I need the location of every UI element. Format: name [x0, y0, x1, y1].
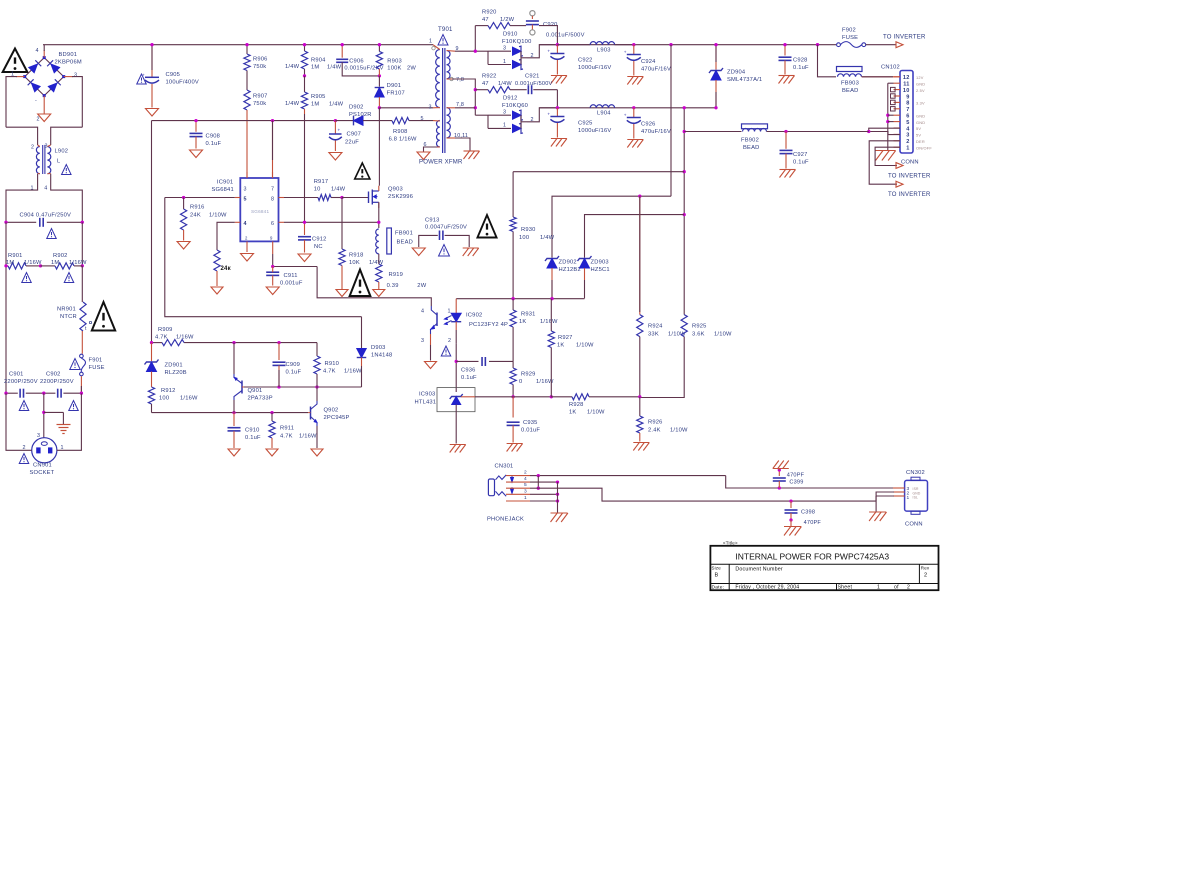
svg-text:11: 11 — [903, 82, 909, 88]
svg-text:R910: R910 — [325, 361, 340, 367]
capacitor C935 — [507, 397, 541, 443]
wire Vcc rail down — [151, 121, 153, 343]
pin stub CN301 pin3 — [506, 488, 530, 494]
svg-text:8: 8 — [906, 101, 909, 107]
wire D903 branch — [361, 317, 363, 349]
junction — [277, 385, 318, 388]
junction — [632, 106, 635, 109]
svg-text:1/16W: 1/16W — [299, 434, 317, 440]
svg-text:FUSE: FUSE — [89, 365, 105, 371]
earth T901 secondary — [464, 151, 480, 159]
svg-text:R905: R905 — [311, 94, 326, 100]
svg-text:<Title>: <Title> — [723, 541, 738, 546]
label R918 — [349, 253, 384, 267]
svg-text:5V: 5V — [916, 133, 921, 138]
svg-text:1/10W: 1/10W — [670, 428, 688, 434]
svg-text:PS102R: PS102R — [349, 112, 372, 118]
svg-text:1000uF/16V: 1000uF/16V — [578, 128, 611, 134]
label to inverter mid — [888, 174, 931, 180]
svg-text:DER: DER — [916, 139, 925, 144]
svg-text:1/10W: 1/10W — [587, 410, 605, 416]
svg-text:SG6841: SG6841 — [212, 187, 234, 193]
wire pin1 — [530, 500, 558, 502]
svg-text:HZ12B2: HZ12B2 — [559, 267, 581, 273]
svg-text:2SK2996: 2SK2996 — [388, 194, 413, 200]
svg-text:R912: R912 — [161, 388, 176, 394]
wire Q903 source — [378, 202, 380, 228]
bridge rectifier BD901 — [11, 48, 82, 123]
svg-text:1: 1 — [906, 146, 909, 152]
svg-text:R929: R929 — [521, 372, 536, 378]
wire left rail down — [5, 222, 7, 393]
label to inverter bottom — [888, 192, 931, 198]
svg-text:R931: R931 — [521, 312, 536, 318]
svg-text:1N4148: 1N4148 — [371, 353, 392, 359]
wire pin5 stub — [888, 121, 894, 123]
svg-text:R917: R917 — [314, 179, 329, 185]
svg-text:+: + — [624, 50, 627, 55]
earth C922 — [551, 76, 567, 84]
ferrite bead FB901 — [376, 228, 413, 254]
wire switch node — [379, 108, 433, 186]
warning symbol C913 — [439, 245, 450, 257]
wire D912 out — [527, 108, 557, 122]
wire to earth — [44, 412, 64, 424]
svg-text:2W: 2W — [417, 283, 426, 289]
wire F901 to cap row — [80, 376, 82, 393]
resistor R926 — [637, 397, 688, 442]
svg-text:NTCR: NTCR — [60, 314, 77, 320]
pin stub CN301 pin5 — [506, 482, 530, 488]
svg-text:8: 8 — [271, 196, 274, 202]
pin stub IC901 p5 — [235, 197, 241, 199]
wire pin4 — [530, 481, 558, 483]
pin stub IC901 p3 — [246, 172, 248, 178]
dual diode D912 — [475, 96, 533, 134]
junction — [378, 43, 381, 46]
svg-text:1/10W: 1/10W — [576, 343, 594, 349]
junction — [378, 106, 381, 109]
svg-text:24K: 24K — [190, 213, 201, 219]
svg-text:C901: C901 — [9, 372, 24, 378]
wire bridge + to rail — [43, 45, 45, 58]
svg-text:470uF/16V: 470uF/16V — [641, 67, 671, 73]
svg-text:47: 47 — [482, 81, 489, 87]
junction — [714, 43, 717, 109]
no-connect pin9 — [891, 94, 896, 98]
svg-text:0.01uF: 0.01uF — [521, 428, 540, 434]
wire D910 out — [527, 45, 557, 58]
svg-text:9: 9 — [270, 236, 273, 241]
wire CN302 p2 gnd — [876, 492, 894, 512]
svg-text:R911: R911 — [280, 426, 294, 432]
junction — [789, 499, 792, 502]
capacitor C911 — [266, 267, 303, 287]
junction — [271, 119, 337, 122]
svg-text:HZ5C1: HZ5C1 — [591, 267, 610, 273]
wire C902 center down — [43, 393, 45, 438]
svg-text:C925: C925 — [578, 121, 593, 127]
svg-text:R919: R919 — [389, 272, 404, 278]
wire 12V vertical — [670, 45, 672, 197]
wire R930 row — [513, 171, 684, 173]
svg-text:2: 2 — [245, 236, 248, 241]
junction — [271, 265, 274, 268]
svg-text:ZD902: ZD902 — [559, 260, 577, 266]
svg-text:7,8: 7,8 — [456, 102, 464, 108]
svg-text:1M: 1M — [311, 65, 319, 71]
resistor R903 — [376, 45, 416, 76]
svg-text:TO INVERTER: TO INVERTER — [888, 192, 931, 198]
junction — [816, 43, 819, 46]
thermistor NR901 — [57, 266, 92, 354]
svg-text:C399: C399 — [789, 480, 803, 486]
wire ref row — [513, 396, 551, 398]
svg-text:1/4W: 1/4W — [285, 101, 300, 107]
no-connect pin7 — [891, 107, 896, 111]
ground R911 — [266, 449, 278, 456]
svg-text:1/4W: 1/4W — [331, 187, 346, 193]
svg-text:TO INVERTER: TO INVERTER — [888, 174, 931, 180]
svg-text:2200P/250V: 2200P/250V — [4, 379, 38, 385]
resistor R904 — [301, 45, 341, 76]
svg-text:1/16W: 1/16W — [176, 335, 194, 341]
resistor R907 — [244, 90, 300, 178]
svg-text:CONN: CONN — [901, 160, 919, 166]
pin stub IC901 p7 — [272, 172, 274, 178]
junction — [669, 43, 672, 46]
wire jack gnd — [557, 482, 559, 512]
svg-text:0.1uF: 0.1uF — [461, 375, 477, 381]
svg-text:1K: 1K — [557, 343, 564, 349]
svg-text:F10KQ100: F10KQ100 — [502, 39, 532, 45]
svg-text:2: 2 — [906, 139, 909, 145]
junction — [783, 43, 786, 46]
svg-text:C398: C398 — [801, 510, 815, 516]
ground C908 — [190, 150, 203, 158]
svg-text:7: 7 — [906, 107, 909, 113]
fuse F901 — [80, 354, 105, 376]
svg-text:FB901: FB901 — [395, 231, 413, 237]
svg-text:R920: R920 — [482, 10, 497, 16]
svg-text:L904: L904 — [597, 111, 611, 117]
svg-text:3: 3 — [244, 187, 247, 193]
svg-text:C902: C902 — [46, 372, 61, 378]
junction — [474, 50, 477, 53]
earth C927 — [780, 170, 796, 178]
svg-text:3: 3 — [74, 73, 77, 79]
svg-text:C922: C922 — [578, 58, 593, 64]
svg-text:1/10W: 1/10W — [209, 213, 227, 219]
svg-text:1/4W: 1/4W — [540, 235, 555, 241]
warning symbol near L902 — [62, 165, 72, 175]
junction — [340, 196, 343, 199]
svg-text:10: 10 — [314, 187, 321, 193]
svg-text:IC903: IC903 — [419, 392, 435, 398]
svg-text:2200P/250V: 2200P/250V — [40, 379, 74, 385]
no-connect pin8 — [891, 100, 896, 104]
svg-text:1K: 1K — [519, 319, 526, 325]
ground C907 — [329, 153, 342, 161]
earth CN302 p2 — [869, 512, 886, 521]
capacitor C399 — [773, 471, 805, 489]
resistor R911 — [269, 413, 317, 448]
label R928 — [569, 402, 605, 416]
resistor R918 — [339, 198, 345, 290]
svg-text:3: 3 — [429, 105, 432, 111]
transistor Q902 2PC945P — [308, 387, 350, 448]
wire pin2 long — [530, 475, 726, 477]
junction — [42, 411, 45, 414]
ground C910 — [228, 449, 240, 456]
wire right rail down — [81, 222, 83, 266]
svg-text:3: 3 — [503, 110, 506, 116]
svg-text:SG6841: SG6841 — [251, 209, 269, 214]
svg-text:ON/OFF: ON/OFF — [916, 145, 932, 150]
connector CN302 — [905, 470, 928, 528]
warning symbol under R902 — [64, 273, 74, 283]
capacitor C905 — [142, 45, 199, 108]
warning symbol near F901 — [70, 359, 80, 370]
warning symbol R919 — [350, 270, 371, 297]
wire pin8 row — [284, 197, 318, 199]
ferrite bead FB903 — [837, 67, 901, 95]
earth CN301 — [551, 513, 568, 522]
svg-text:4.7K: 4.7K — [280, 434, 293, 440]
svg-text:ISR: ISR — [913, 487, 920, 491]
svg-text:HTL431: HTL431 — [415, 400, 437, 406]
wire pin9 down — [273, 254, 317, 267]
transistor Q903 2SK2996 — [369, 186, 414, 208]
svg-text:1: 1 — [503, 123, 506, 129]
ground opto — [425, 362, 437, 369]
svg-text:C913: C913 — [425, 218, 440, 224]
diode D901 — [375, 76, 405, 108]
svg-text:BEAD: BEAD — [743, 145, 760, 151]
svg-text:GND: GND — [916, 120, 925, 125]
svg-text:ZD901: ZD901 — [165, 363, 183, 369]
pin stub CN102 pin5 — [894, 121, 901, 123]
svg-text:3: 3 — [503, 46, 506, 52]
svg-text:0.1uF: 0.1uF — [793, 160, 809, 166]
wire pin2-pin5 tie — [537, 476, 539, 489]
wire base row — [244, 386, 362, 388]
svg-text:R928: R928 — [569, 402, 584, 408]
svg-text:PHONEJACK: PHONEJACK — [487, 517, 524, 523]
svg-text:C906: C906 — [349, 58, 364, 64]
svg-text:R927: R927 — [558, 335, 573, 341]
svg-text:R922: R922 — [482, 74, 497, 80]
resistor R912 — [148, 387, 198, 413]
wire gate — [342, 197, 369, 199]
svg-text:D901: D901 — [387, 83, 402, 89]
resistor R916 — [181, 198, 228, 241]
svg-text:4: 4 — [244, 221, 247, 227]
capacitor C922 — [547, 45, 611, 75]
warning symbol opto — [441, 346, 451, 356]
svg-text:C912: C912 — [312, 237, 327, 243]
pin stub IC901 p9 — [272, 241, 274, 254]
svg-text:2: 2 — [448, 338, 451, 344]
wire pin5 left rail — [165, 198, 362, 317]
wire tl431 out — [475, 396, 513, 398]
wire bridge right — [64, 77, 83, 128]
svg-text:1: 1 — [503, 59, 506, 65]
svg-text:2: 2 — [524, 470, 527, 476]
resistor R910 — [314, 343, 362, 387]
IC903 HTL431 — [415, 388, 476, 412]
junction — [150, 341, 281, 344]
pin stub CN301 pin4 — [506, 476, 530, 482]
connector CN102 box — [881, 65, 932, 166]
wire pin9 net — [455, 26, 488, 52]
svg-text:Rev: Rev — [921, 566, 930, 571]
svg-text:D902: D902 — [349, 105, 364, 111]
svg-text:0.1uF: 0.1uF — [206, 141, 222, 147]
svg-text:C907: C907 — [347, 132, 362, 138]
svg-text:R926: R926 — [648, 420, 663, 426]
wire CN102 pin2 out — [869, 141, 900, 184]
junction — [537, 487, 540, 490]
wire Vcc row left — [152, 120, 336, 122]
svg-text:NR901: NR901 — [57, 306, 76, 312]
svg-text:C911: C911 — [284, 273, 298, 279]
svg-text:7: 7 — [271, 187, 274, 193]
svg-text:1M: 1M — [51, 260, 59, 266]
svg-text:33K: 33K — [648, 332, 659, 338]
junction — [556, 106, 559, 109]
svg-text:1/16W: 1/16W — [180, 396, 198, 402]
capacitor C920 — [526, 11, 585, 39]
pin stub CN301 pin2 — [506, 470, 530, 476]
svg-text:FB902: FB902 — [741, 138, 759, 144]
earth ground near CN901 — [57, 425, 71, 434]
svg-text:+: + — [547, 49, 550, 54]
svg-text:Date:: Date: — [712, 585, 725, 591]
capacitor C924 — [624, 45, 671, 76]
svg-text:1: 1 — [429, 39, 432, 45]
wire FB902 to CN102 — [767, 131, 869, 133]
svg-text:GND: GND — [916, 113, 925, 118]
resistor R909 — [155, 327, 194, 346]
junction — [4, 221, 84, 224]
svg-text:9: 9 — [906, 94, 909, 100]
connector CN301 phonejack — [487, 464, 524, 523]
wire bridge right to L902 — [51, 127, 83, 145]
svg-text:ZD903: ZD903 — [591, 260, 609, 266]
svg-text:4: 4 — [421, 309, 424, 315]
svg-text:POWER XFMR: POWER XFMR — [419, 160, 463, 166]
svg-text:0.001uF/500V: 0.001uF/500V — [546, 33, 585, 39]
svg-text:+: + — [624, 113, 627, 118]
svg-text:0.001uF/500V: 0.001uF/500V — [515, 81, 553, 87]
svg-text:10K: 10K — [349, 260, 360, 266]
wire ZD903 row — [585, 215, 685, 258]
junction — [683, 106, 686, 216]
ground R916 — [177, 242, 190, 250]
svg-text:+: + — [547, 112, 550, 117]
svg-text:0.001uF: 0.001uF — [280, 281, 303, 287]
wire T901 pin6 to gnd — [424, 147, 438, 152]
svg-text:1: 1 — [907, 495, 910, 501]
IC SG6841 IC901 — [212, 178, 279, 241]
svg-text:R925: R925 — [692, 324, 707, 330]
wire bridge left — [6, 77, 25, 128]
wire 7,8 net — [452, 79, 475, 115]
transformer T901 — [419, 27, 468, 166]
svg-text:C928: C928 — [793, 58, 808, 64]
svg-text:1/16W: 1/16W — [69, 260, 87, 266]
wire CN901 pin2 — [6, 393, 32, 450]
svg-text:F901: F901 — [89, 358, 103, 364]
svg-text:4.7K: 4.7K — [155, 335, 168, 341]
wire pin5 long — [530, 488, 876, 501]
svg-text:5: 5 — [421, 116, 424, 122]
warning symbol T901 — [438, 35, 448, 46]
svg-text:100: 100 — [519, 235, 529, 241]
svg-text:4.7K: 4.7K — [323, 369, 336, 375]
svg-text:2: 2 — [924, 573, 927, 579]
svg-text:1: 1 — [448, 309, 451, 315]
svg-text:1000uF/16V: 1000uF/16V — [578, 65, 611, 71]
socket CN901 — [23, 433, 64, 476]
svg-text:Size: Size — [712, 566, 722, 571]
junction — [303, 221, 306, 224]
junction — [537, 474, 540, 477]
svg-text:Sheet: Sheet — [838, 585, 853, 591]
svg-text:24к: 24к — [221, 266, 232, 272]
junction — [778, 468, 781, 471]
svg-text:D903: D903 — [371, 345, 386, 351]
pin stub CN102 pin11 — [894, 82, 901, 84]
ground IC901 — [241, 254, 254, 262]
wire CN102 gnd rail — [888, 83, 894, 150]
ground R918 — [336, 290, 348, 297]
svg-text:FUSE: FUSE — [842, 35, 858, 41]
svg-text:F902: F902 — [842, 28, 856, 34]
capacitor C907 — [329, 121, 361, 151]
svg-text:of: of — [894, 585, 899, 591]
resistor R919 — [376, 254, 427, 289]
svg-text:CN301: CN301 — [495, 464, 514, 470]
capacitor C909 — [273, 343, 302, 387]
svg-text:R924: R924 — [648, 324, 663, 330]
pin stub CN102 pin7 — [894, 108, 901, 110]
svg-text:D912: D912 — [503, 96, 518, 102]
junction — [232, 411, 273, 414]
svg-text:CN901: CN901 — [33, 463, 52, 469]
wire L902 pin4 down — [51, 174, 83, 223]
earth C398 — [784, 520, 801, 536]
svg-text:100K: 100K — [387, 65, 401, 71]
pin stub CN102 pin8 — [894, 101, 901, 103]
ground C912 — [298, 254, 311, 262]
junction — [377, 221, 380, 224]
svg-text:CN302: CN302 — [906, 470, 925, 476]
ground T901 pin6 — [417, 152, 430, 160]
svg-text:5: 5 — [524, 482, 527, 488]
wire 5V vertical — [683, 108, 685, 315]
junction — [556, 499, 559, 502]
resistor R905 — [301, 76, 343, 222]
pin stub IC901 p4 — [235, 221, 241, 223]
wire 5V rail — [539, 107, 716, 109]
svg-text:C908: C908 — [206, 134, 221, 140]
earth C913 right — [463, 248, 479, 256]
zener ZD904 — [709, 45, 762, 108]
capacitor C926 — [624, 108, 671, 139]
svg-text:L902: L902 — [55, 149, 69, 155]
